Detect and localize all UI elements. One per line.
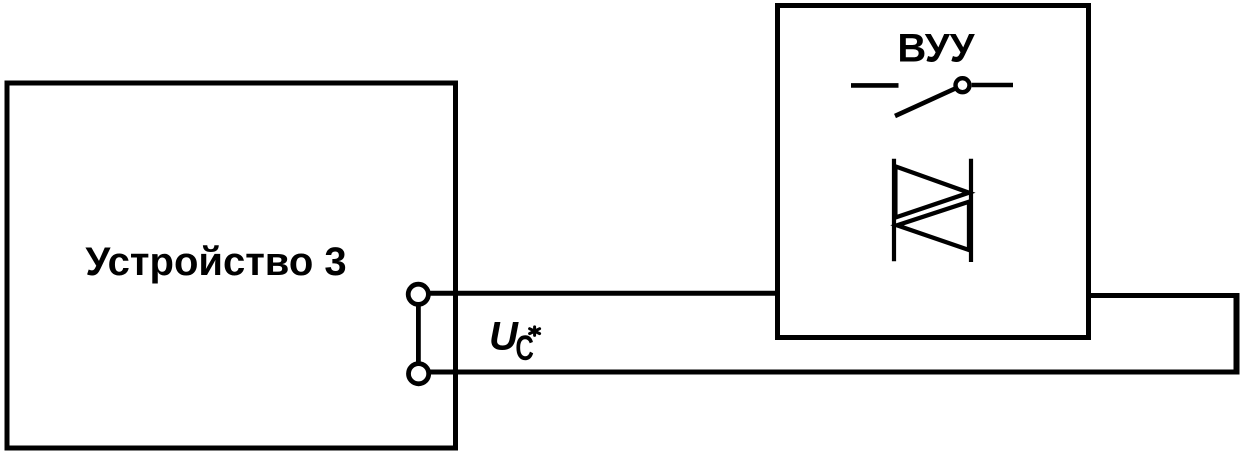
device box U3 <box>7 83 456 448</box>
triac VS: right bar <box>969 159 973 262</box>
switch S: pivot circle <box>956 78 970 92</box>
triac VS: lower triangle (points left) <box>897 202 969 250</box>
terminal node (top) <box>408 284 428 304</box>
switch S: left lead <box>851 83 899 88</box>
svg-text:ВУУ: ВУУ <box>897 27 975 71</box>
switch S: arm <box>895 85 963 116</box>
wire: BUU box right side to bend <box>1088 293 1239 298</box>
svg-text:Устройство 3: Устройство 3 <box>85 240 346 284</box>
wire: top terminal to BUU box <box>418 291 778 296</box>
triac VS: upper triangle (points right) <box>895 166 969 217</box>
wire: bottom return to bottom terminal <box>419 370 1239 375</box>
terminal node (bottom) <box>409 364 429 384</box>
switch S: right lead <box>972 83 1013 88</box>
wire: right vertical segment <box>1234 293 1240 375</box>
control unit box BUU <box>778 6 1089 338</box>
label UC* <box>489 315 540 369</box>
triac VS: left bar <box>892 159 896 262</box>
wire: jumper between terminals <box>416 294 421 374</box>
